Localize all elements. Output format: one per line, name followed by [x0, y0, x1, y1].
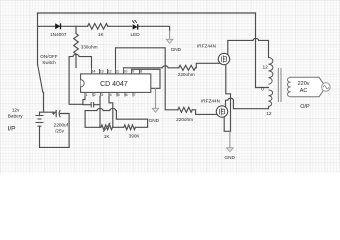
- switch ON/OFF: [38, 54, 58, 92]
- potentiometer 1K: [101, 125, 113, 130]
- svg-text:220ohm: 220ohm: [176, 117, 193, 122]
- svg-text:GND: GND: [224, 155, 235, 160]
- wire pin 4 drop to resistor chain: [109, 97, 113, 128]
- wire 2200uf right plate down to bottom loop: [59, 114, 69, 148]
- svg-text:GND: GND: [149, 118, 160, 123]
- wire battery negative bottom loop: [40, 126, 70, 147]
- svg-text:220v: 220v: [298, 81, 310, 87]
- capacitor 2200uf/25v (polarized): [52, 110, 69, 133]
- svg-text:IRFZ44N: IRFZ44N: [197, 43, 216, 48]
- svg-text:12: 12: [107, 69, 111, 74]
- svg-text:1: 1: [86, 92, 88, 97]
- transformer T1 core: [278, 68, 281, 102]
- ground (below IC): [149, 88, 160, 123]
- svg-text:3: 3: [101, 92, 103, 97]
- IC U1 CD 4047 body: [81, 74, 151, 93]
- svg-text:2200uf: 2200uf: [54, 122, 69, 127]
- wire top-left vertical from rail to switch: [37, 13, 39, 65]
- wire bottom 220ohm to Q2 gate: [192, 110, 217, 115]
- output tag 220v AC (secondary side): [287, 77, 325, 96]
- svg-text:0: 0: [261, 87, 264, 93]
- svg-text:330ohm: 330ohm: [81, 44, 98, 49]
- wire LED to GND corner: [139, 26, 170, 30]
- wire top 220ohm to Q1 gate: [195, 63, 219, 68]
- wire ground bus left drop to pot: [85, 111, 101, 128]
- wire 390K right up to ground bus: [135, 119, 147, 127]
- background grid: [0, 0, 340, 173]
- IC bottom pin stubs: [85, 92, 133, 96]
- svg-text:LED: LED: [131, 32, 141, 37]
- svg-text:9: 9: [132, 69, 134, 74]
- svg-text:12: 12: [263, 64, 269, 70]
- svg-text:6: 6: [126, 92, 128, 97]
- wire Q2 drain up with hump over source wire, to transformer bottom tap: [226, 98, 269, 108]
- svg-text:390K: 390K: [129, 133, 141, 138]
- wire VDD link: horizontal with hump over 330ohm lead, down to pin 14: [69, 54, 91, 104]
- svg-text:12: 12: [266, 111, 272, 117]
- wire top rail: [38, 12, 256, 14]
- svg-text:7: 7: [134, 92, 136, 97]
- svg-text:Battery: Battery: [8, 114, 24, 119]
- AC source symbol: [322, 83, 331, 92]
- resistor 220ohm (top): [179, 65, 196, 70]
- wire 330ohm top lead from rail junction: [75, 26, 77, 33]
- resistor 1K (top rail): [88, 24, 108, 30]
- wire rail right vertical to transformer center tap: [256, 13, 269, 88]
- svg-text:AC: AC: [300, 88, 308, 94]
- svg-text:2: 2: [94, 92, 96, 97]
- wire pins 9-8 tie to hook down IC right side: [132, 69, 161, 88]
- transistor Q2 IRFZ44N (bottom): [201, 99, 228, 118]
- svg-text:/25v: /25v: [55, 128, 65, 133]
- wire timing capacitor right to pin 3 and down: [94, 97, 100, 128]
- svg-text:ON/OFF: ON/OFF: [40, 54, 58, 59]
- svg-text:5: 5: [118, 92, 120, 97]
- transformer T1 primary winding (top half): [269, 58, 273, 85]
- svg-text:1N4007: 1N4007: [50, 32, 67, 37]
- svg-text:220ohm: 220ohm: [178, 72, 195, 77]
- wire pin 10 to top 220ohm (hump over pin-11 drop): [124, 66, 179, 68]
- wire pot to 390K: [113, 126, 124, 128]
- svg-text:GND: GND: [171, 47, 182, 52]
- wire 1K to LED: [108, 25, 132, 27]
- svg-text:1K: 1K: [98, 32, 105, 37]
- wire Q1 source down and over: [226, 64, 231, 132]
- transformer T1 primary winding (bottom half): [269, 90, 273, 107]
- wire 330ohm bottom lead crossing under hump: [75, 54, 77, 68]
- IC bottom pin numbers: [86, 92, 136, 97]
- IC top pin numbers: [91, 69, 142, 74]
- diode 1N4007: [55, 23, 60, 29]
- LED: [132, 20, 138, 30]
- wire Q2 source down to common ground junction: [224, 117, 230, 132]
- wire pin 1 to timing capacitor: [83, 97, 91, 105]
- resistor 390K: [124, 125, 136, 130]
- svg-text:8: 8: [140, 69, 142, 74]
- resistor 330ohm (vertical): [74, 34, 79, 55]
- svg-text:O/P: O/P: [300, 104, 310, 110]
- svg-text:I/P: I/P: [8, 126, 17, 133]
- capacitor C1 (timing, below pin 1): [91, 102, 93, 108]
- ground (MOSFET sources): [224, 131, 235, 160]
- svg-text:11: 11: [115, 69, 119, 74]
- wire pin 11 up-over-down to bottom 220ohm: [116, 48, 178, 110]
- svg-text:IRFZ44N: IRFZ44N: [201, 99, 220, 104]
- wire diode rail segment B: [61, 25, 87, 27]
- svg-text:1K: 1K: [104, 134, 111, 139]
- ground (top, LED branch): [166, 31, 181, 52]
- resistor 220ohm (bottom): [178, 107, 193, 112]
- svg-text:CD 4047: CD 4047: [100, 81, 128, 88]
- wire Q1 drain to transformer top tap (hump over center-tap feed): [228, 38, 269, 57]
- IC top pin stubs: [92, 68, 140, 74]
- switch lower wire to battery and capacitor: [40, 93, 57, 116]
- svg-text:13: 13: [99, 69, 103, 74]
- svg-text:Switch: Switch: [42, 60, 56, 65]
- wire diode rail segment A: [38, 25, 56, 27]
- potentiometer arrow: [103, 122, 110, 132]
- svg-text:12v: 12v: [12, 108, 20, 113]
- battery 12v: [36, 116, 44, 127]
- transistor Q1 IRFZ44N (top): [197, 43, 230, 64]
- wire IC ground bus with two humps: [85, 108, 148, 119]
